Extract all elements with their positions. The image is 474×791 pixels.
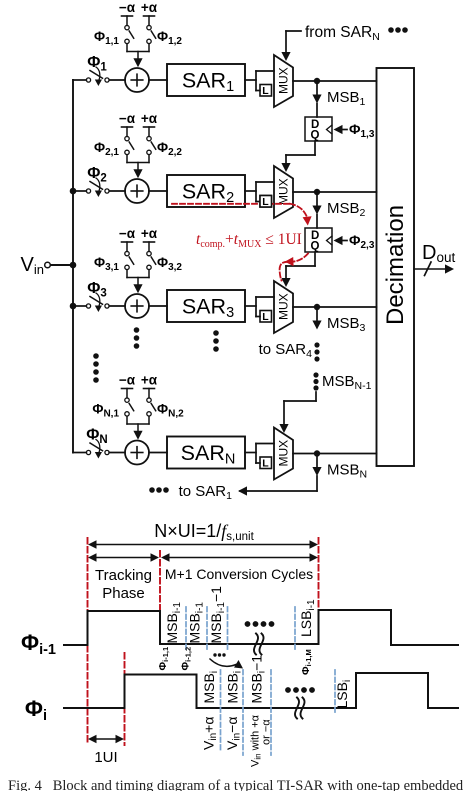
svg-text:Q: Q bbox=[311, 130, 320, 142]
svg-text:−α: −α bbox=[119, 373, 136, 388]
svg-text:Fig. 4 Block and timing diag: Fig. 4 Block and timing diagram of a typ… bbox=[8, 778, 464, 791]
svg-text:−α: −α bbox=[119, 111, 136, 126]
svg-text:Tracking: Tracking bbox=[95, 567, 152, 584]
svg-text:L: L bbox=[262, 311, 269, 323]
svg-text:Vin−α: Vin−α bbox=[224, 717, 243, 750]
svg-text:−α: −α bbox=[119, 226, 136, 241]
svg-text:L: L bbox=[262, 458, 269, 470]
svg-text:L: L bbox=[262, 196, 269, 208]
svg-text:Decimation: Decimation bbox=[382, 205, 409, 325]
svg-text:+α: +α bbox=[141, 0, 158, 15]
svg-text:1UI: 1UI bbox=[94, 749, 117, 766]
svg-text:MUX: MUX bbox=[277, 67, 291, 94]
svg-text:M+1 Conversion Cycles: M+1 Conversion Cycles bbox=[165, 566, 313, 582]
svg-text:Vin+α: Vin+α bbox=[201, 717, 220, 750]
svg-text:−α: −α bbox=[119, 0, 136, 15]
svg-text:+α: +α bbox=[141, 373, 158, 388]
svg-text:+α: +α bbox=[141, 111, 158, 126]
svg-text:MUX: MUX bbox=[277, 293, 291, 320]
svg-text:from SARN: from SARN bbox=[305, 24, 380, 43]
svg-text:+α: +α bbox=[141, 226, 158, 241]
svg-text:or −α: or −α bbox=[261, 719, 273, 745]
svg-text:to SAR1: to SAR1 bbox=[179, 483, 233, 502]
svg-text:Q: Q bbox=[311, 241, 320, 253]
svg-text:Phase: Phase bbox=[102, 585, 145, 602]
svg-text:to SAR4: to SAR4 bbox=[259, 341, 313, 360]
svg-text:MUX: MUX bbox=[277, 440, 291, 467]
svg-text:MUX: MUX bbox=[277, 178, 291, 205]
svg-text:L: L bbox=[262, 85, 269, 97]
